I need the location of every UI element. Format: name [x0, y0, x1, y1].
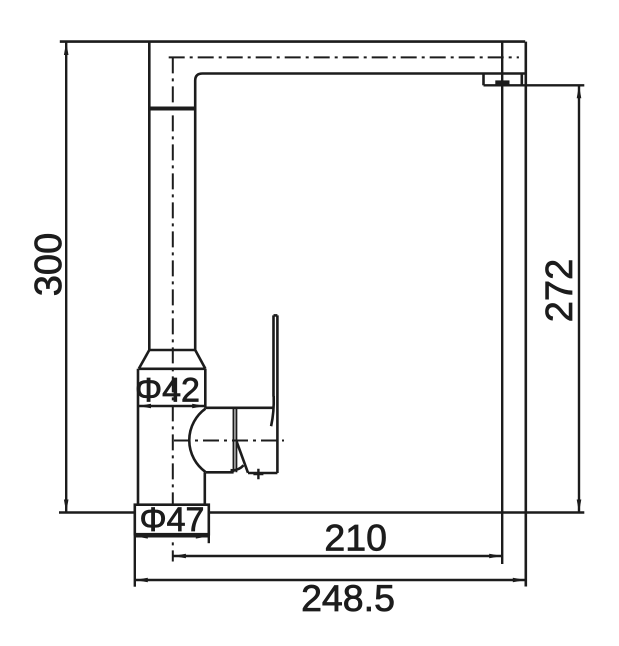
- spout top outline: [60, 40, 525, 43]
- riser pipe left edge: [148, 42, 151, 350]
- cone bottom junction line: [139, 367, 206, 370]
- arrow 272 top: [577, 85, 582, 98]
- spout right edge + 248.5 extension: [524, 42, 527, 587]
- cone top junction line: [149, 349, 195, 352]
- cartridge housing bottom edge: [205, 471, 233, 474]
- arrow 300 bottom: [64, 500, 69, 513]
- dimension line 272: [578, 86, 580, 513]
- plus mark at handle base: [253, 469, 263, 479]
- svg-text:Φ47: Φ47: [140, 501, 205, 539]
- nozzle bottom + 272 top extension line: [484, 84, 585, 86]
- arrow phi42 left: [138, 404, 151, 409]
- arrow phi42 right: [192, 404, 205, 409]
- handle body / lever right edge: [276, 315, 279, 473]
- arrow phi47 right: [196, 534, 209, 539]
- centerline horizontal (ball axis): [174, 440, 284, 442]
- centerline horizontal (spout axis): [169, 56, 519, 58]
- centerline vertical (riser axis): [172, 57, 174, 561]
- aerator block: [495, 80, 509, 85]
- arrow 210 left: [173, 554, 186, 559]
- body left edge: [137, 369, 140, 505]
- riser pipe right (inner) edge with corner radius: [195, 74, 202, 351]
- svg-text:272: 272: [539, 259, 581, 322]
- arrow 248.5 right: [513, 578, 526, 583]
- lever top cap: [274, 314, 278, 317]
- svg-text:Φ42: Φ42: [135, 372, 200, 410]
- arrow 300 top: [64, 42, 69, 55]
- arrow 272 bottom: [577, 500, 582, 513]
- dimension line 248.5: [135, 579, 526, 581]
- ball joint sphere arc: [189, 409, 205, 472]
- baseline (counter level) extension line: [59, 511, 584, 513]
- arrow phi47 left: [135, 534, 148, 539]
- svg-text:248.5: 248.5: [301, 577, 395, 619]
- handle body bottom edge: [248, 472, 277, 475]
- handle base small arc: [231, 465, 244, 470]
- spout tube inner bottom line: [203, 72, 526, 75]
- handle body diagonal: [237, 442, 248, 473]
- phi42 dimension line: [138, 405, 205, 407]
- pipe joint seam: [149, 107, 195, 111]
- nozzle left edge: [482, 74, 485, 86]
- base flange box: [135, 505, 209, 535]
- lever lower front curve: [271, 396, 274, 426]
- svg-text:300: 300: [28, 233, 70, 296]
- flange right extension tick: [208, 534, 210, 543]
- cartridge housing top edge: [205, 406, 274, 409]
- dimension line 210: [173, 555, 502, 557]
- cone left slant: [139, 350, 150, 369]
- flange dimension line (phi47): [135, 535, 209, 537]
- arrow 210 right: [489, 554, 502, 559]
- nozzle right edge: [520, 74, 523, 86]
- cone right slant: [195, 350, 205, 369]
- spout end cap seam + 210 extension line: [501, 42, 503, 564]
- joint line A: [233, 408, 235, 473]
- arrow 248.5 left: [135, 578, 148, 583]
- body right edge lower: [204, 472, 207, 504]
- flange left edge extension (to 248.5 dim): [134, 534, 136, 587]
- joint line B: [235, 408, 237, 473]
- lever left edge: [272, 315, 275, 396]
- dimension line 300: [65, 42, 67, 512]
- svg-text:210: 210: [324, 517, 387, 559]
- body right edge upper: [204, 369, 207, 408]
